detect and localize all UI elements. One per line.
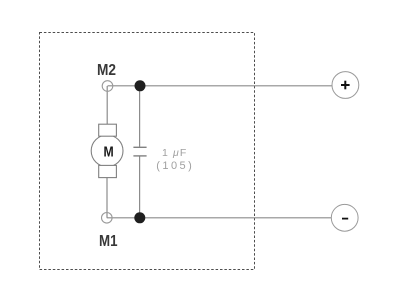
svg-text:M: M bbox=[104, 144, 114, 161]
svg-text:M1: M1 bbox=[99, 233, 118, 250]
svg-text:(105): (105) bbox=[156, 160, 192, 172]
svg-text:M2: M2 bbox=[97, 62, 116, 79]
svg-text:1 μF: 1 μF bbox=[162, 147, 186, 159]
